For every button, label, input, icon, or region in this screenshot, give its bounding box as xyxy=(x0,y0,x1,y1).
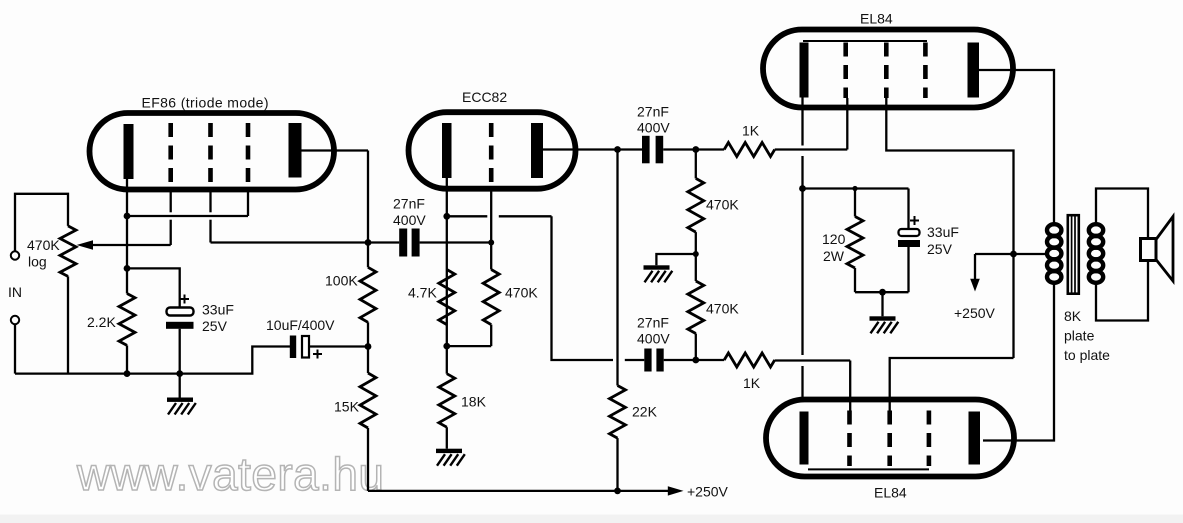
svg-text:2.2K: 2.2K xyxy=(87,314,116,330)
wire C3 to ECC82 grid xyxy=(420,241,492,243)
wire hop to C5 xyxy=(625,359,645,361)
node 2.2K rail junction xyxy=(124,370,131,377)
ground symbol under 18K xyxy=(436,449,462,453)
transformer T1 primary winding xyxy=(1047,224,1061,236)
wire cathode-g3 link xyxy=(127,215,248,217)
node C1 rail junction xyxy=(176,370,183,377)
ECC82 cathode electrode xyxy=(442,123,452,178)
svg-text:27nF: 27nF xyxy=(393,196,425,212)
input jack ground terminal xyxy=(11,316,19,324)
wire C1 to ground xyxy=(179,329,181,398)
transformer T1 core xyxy=(1068,215,1079,294)
wire anode down to g2 node xyxy=(367,151,369,243)
svg-text:120: 120 xyxy=(822,231,846,247)
wire EL84 top anode out xyxy=(979,70,1054,225)
node anode junction xyxy=(614,146,621,153)
wire EF86 g2 down xyxy=(209,188,211,212)
wire EL84 bottom g2 up xyxy=(890,358,1014,411)
node grid leak center xyxy=(693,251,699,257)
EF86 cathode electrode xyxy=(124,124,134,179)
EF86 grid g1 electrode xyxy=(168,123,173,188)
svg-text:400V: 400V xyxy=(393,212,426,228)
svg-text:470K: 470K xyxy=(706,197,739,213)
wire R5 R6 link xyxy=(446,270,448,347)
svg-text:27nF: 27nF xyxy=(637,315,669,331)
svg-text:400V: 400V xyxy=(637,331,670,347)
wire C4 to R10 xyxy=(663,148,724,150)
svg-text:EF86 (triode mode): EF86 (triode mode) xyxy=(142,95,269,111)
resistor R10 1K top element xyxy=(724,143,775,157)
pot wiper arrow xyxy=(77,240,94,250)
svg-text:15K: 15K xyxy=(334,399,360,415)
potentiometer R1 470K log element xyxy=(60,226,76,277)
wire EF86 cathode down xyxy=(126,179,128,294)
tube V4 EL84 envelope xyxy=(766,400,1014,477)
wire ECC82 cathode down xyxy=(446,178,448,270)
svg-text:IN: IN xyxy=(8,284,22,300)
svg-text:18K: 18K xyxy=(461,394,487,410)
tube V3 EL84 envelope xyxy=(763,30,1013,108)
wire 2.2K to ground rail xyxy=(126,345,128,373)
wire g2 horizontal to C3 xyxy=(211,241,400,243)
resistor R9b 470K element xyxy=(688,281,704,334)
svg-text:10uF/400V: 10uF/400V xyxy=(266,317,335,333)
wire C5 to R11 xyxy=(664,359,725,361)
svg-text:www.vatera.hu: www.vatera.hu xyxy=(76,448,385,500)
ground symbol bias xyxy=(870,316,896,320)
node bottom grid junction xyxy=(692,357,699,364)
svg-text:to plate: to plate xyxy=(1064,347,1110,363)
EL84 top grid g2 electrode xyxy=(884,43,889,99)
node R12 top xyxy=(852,186,857,191)
svg-text:25V: 25V xyxy=(202,318,228,334)
resistor R11 1K bottom element xyxy=(724,353,775,367)
node tail junction xyxy=(443,343,450,350)
wire EL84 top grid down xyxy=(846,98,848,150)
capacitor C1 33uF top plate xyxy=(167,308,194,316)
capacitor C1 33uF bottom plate xyxy=(166,322,194,329)
wire EF86 g1 down to wiper line xyxy=(170,188,172,212)
node cathode bypass junction xyxy=(124,265,131,272)
svg-text:400V: 400V xyxy=(637,120,670,136)
capacitor C6 33uF wire top xyxy=(907,189,909,230)
capacitor C5 27nF plates xyxy=(644,349,651,372)
wire EL84 bottom grid up xyxy=(849,361,851,411)
ground symbol grid leaks xyxy=(644,265,670,269)
wire cathode link down xyxy=(552,216,614,360)
node EF86 cathode junction xyxy=(124,213,131,220)
arrow +250V down xyxy=(974,254,976,280)
svg-text:470K: 470K xyxy=(505,285,538,301)
wire C2 to node xyxy=(309,345,368,347)
EF86 grid g3 electrode xyxy=(246,123,251,188)
svg-text:1K: 1K xyxy=(743,375,761,391)
resistor R4 15K element xyxy=(360,373,376,428)
wire to ground tap xyxy=(656,254,695,265)
node decoupling junction xyxy=(365,343,372,350)
wire cathode link with hop xyxy=(447,215,488,217)
node cathode bias junction xyxy=(799,185,806,192)
tube V2 ECC82 envelope xyxy=(409,112,576,189)
wire to bias ground xyxy=(881,292,883,316)
node 22K rail junction xyxy=(614,488,621,495)
EL84 top cathode electrode xyxy=(800,43,809,98)
svg-text:EL84: EL84 xyxy=(860,11,893,27)
wire jack gnd to rail xyxy=(14,324,16,373)
wire EL84 bottom anode out xyxy=(983,284,1054,441)
svg-text:8K: 8K xyxy=(1064,308,1082,324)
node anode-g2 junction xyxy=(365,239,372,246)
input jack hot terminal xyxy=(11,251,19,259)
wire cathodes vertical xyxy=(801,98,803,146)
EL84 bottom grid g2 electrode xyxy=(887,411,892,467)
wire pot bottom to ground rail xyxy=(67,276,69,373)
wire secondary bottom xyxy=(1096,261,1148,321)
wire ECC82 anode out xyxy=(543,148,642,150)
wire cathode to C1 xyxy=(127,268,180,307)
svg-text:EL84: EL84 xyxy=(874,485,907,501)
EL84 bottom grid g1 electrode xyxy=(847,411,852,467)
wire node down to R9a xyxy=(695,150,697,179)
svg-text:ECC82: ECC82 xyxy=(462,89,507,105)
svg-text:33uF: 33uF xyxy=(202,302,234,318)
wire R11 to EL84 grid xyxy=(775,359,851,361)
wire R10 to EL84 grid xyxy=(775,148,848,150)
svg-text:2W: 2W xyxy=(823,248,845,264)
EL84 bottom anode electrode xyxy=(969,412,981,465)
EF86 grid g2 electrode xyxy=(208,123,213,188)
svg-text:33uF: 33uF xyxy=(927,224,959,240)
svg-text:25V: 25V xyxy=(927,241,953,257)
wire anode node down to R8 xyxy=(616,150,618,386)
svg-text:plate: plate xyxy=(1064,328,1095,344)
EL84 top anode electrode xyxy=(968,43,980,98)
resistor R5 4.7K element xyxy=(439,270,455,325)
node ECC82 cathode junction xyxy=(443,213,450,220)
EL84 bottom grid g3 electrode xyxy=(927,411,932,467)
resistor R7 18K element xyxy=(439,374,455,428)
svg-text:100K: 100K xyxy=(325,273,358,289)
wire bias bottom link xyxy=(855,291,909,293)
svg-text:log: log xyxy=(28,254,47,270)
svg-text:+250V: +250V xyxy=(954,305,996,321)
ground symbol under C1 xyxy=(167,398,193,402)
tube V1 EF86 envelope xyxy=(90,113,335,190)
EF86 anode electrode xyxy=(289,123,302,178)
node screen rail junction xyxy=(1010,251,1017,258)
ECC82 grid electrode xyxy=(489,123,494,188)
wire EF86 g3 down xyxy=(247,188,249,216)
wire EF86 anode out xyxy=(302,149,369,151)
wire center tap xyxy=(975,253,1047,255)
svg-text:27nF: 27nF xyxy=(637,104,669,120)
capacitor C6 33uF top plate xyxy=(899,229,920,236)
capacitor C4 27nF plates xyxy=(642,136,650,164)
speaker LS1 driver xyxy=(1141,239,1157,261)
EL84 top grid g1 electrode xyxy=(843,43,848,99)
capacitor C6 33uF bottom plate xyxy=(898,240,920,247)
wire EL84 top g2 down xyxy=(886,98,1013,358)
resistor R12 120 2W element xyxy=(847,217,863,269)
capacitor C6 plus sign xyxy=(910,220,919,222)
transformer T1 secondary winding xyxy=(1089,224,1103,236)
wire B+ rail xyxy=(368,490,668,492)
EL84 bottom internal strap xyxy=(808,468,929,470)
resistor R2 2.2K element xyxy=(119,294,135,346)
EL84 bottom cathode electrode xyxy=(800,412,809,465)
arrow +250V right xyxy=(668,486,684,495)
capacitor C2 plus sign xyxy=(313,353,322,355)
capacitor C2 10uF right plate xyxy=(302,336,309,358)
svg-text:470K: 470K xyxy=(706,301,739,317)
ECC82 anode electrode xyxy=(531,123,543,178)
wire C6 down xyxy=(907,247,909,292)
svg-text:+250V: +250V xyxy=(687,484,729,500)
bottom gray band xyxy=(0,515,1183,523)
EL84 top grid g3 electrode xyxy=(923,43,928,99)
wire ECC82 grid down to R6 xyxy=(490,188,492,270)
node top grid junction xyxy=(692,146,699,153)
node ECC82 grid junction xyxy=(488,240,494,246)
speaker LS1 cone xyxy=(1156,217,1173,282)
EL84 top internal strap xyxy=(803,40,927,42)
wire bias top link xyxy=(803,187,909,189)
svg-text:1K: 1K xyxy=(742,123,760,139)
svg-text:22K: 22K xyxy=(632,404,658,420)
resistor R9a 470K element xyxy=(688,178,704,232)
capacitor C2 10uF left plate xyxy=(290,336,296,359)
wire jack to pot top xyxy=(15,194,68,252)
svg-text:4.7K: 4.7K xyxy=(408,285,437,301)
capacitor C3 27nF plates xyxy=(399,229,407,257)
resistor R6 470K element xyxy=(483,270,499,325)
resistor R8 22K element xyxy=(610,386,626,439)
capacitor C1 33uF plus sign xyxy=(180,298,189,300)
ground rail wire xyxy=(15,347,290,374)
wire secondary top xyxy=(1096,189,1148,239)
svg-text:470K: 470K xyxy=(27,237,60,253)
node bias ground junction xyxy=(879,289,886,296)
resistor R3 100K element xyxy=(360,267,376,322)
